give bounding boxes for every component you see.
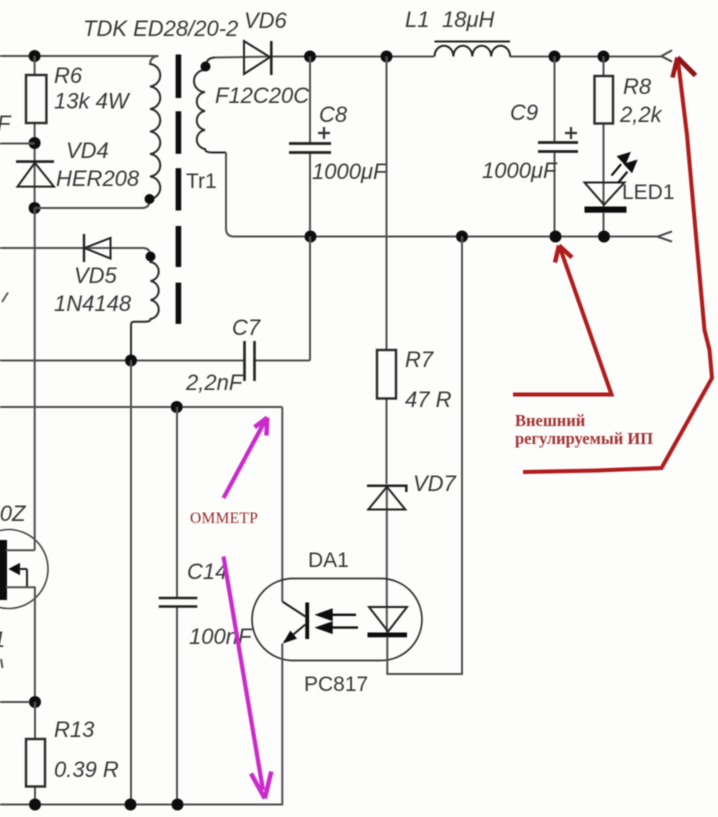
label TDK ED28/20-2 [83,16,238,41]
wire: snubber loop bottom to primary winding [35,199,150,208]
svg-text:1000μF: 1000μF [482,158,558,183]
diode VD6 F12C20C [244,41,271,75]
svg-text:R8: R8 [623,74,652,99]
annotation: magenta arrow up (ohmmeter) [224,418,268,498]
svg-text:1000μF: 1000μF [312,159,388,184]
optocoupler DA1 phototransistor [282,602,309,643]
label 47 R [405,387,452,412]
label C9 [510,100,538,125]
svg-text:R13: R13 [54,717,95,742]
transformer Tr1 primary winding [150,64,160,199]
node: secondary winding phase dot [201,62,211,72]
label 1N4148 [54,291,132,316]
wire: secondary top to VD6 [215,57,304,58]
svg-text:C9: C9 [510,100,538,125]
wire: top output rail [304,56,662,58]
wire: primary ground rail [0,804,282,806]
label 18uH [442,7,495,32]
label 2,2k [619,102,663,127]
svg-text:2,2k: 2,2k [619,102,663,127]
label 2,2nF [185,370,244,395]
node: R7 top junction [381,51,393,63]
svg-text:Внешний: Внешний [515,411,586,430]
label L1 [405,7,429,32]
wire: R13 top stub [0,701,35,703]
label R7 [405,347,434,372]
label 0.39 R [54,757,119,782]
label 1000uF (C9) [482,158,558,183]
transformer Tr1 auxiliary winding [131,256,159,361]
label C7 [232,315,261,340]
node: C9 top junction [549,51,561,63]
diode VD5 [84,234,111,262]
wire: R7 branch vertical [386,57,388,634]
label C14 [187,559,227,584]
label Tr1 [186,170,217,193]
node: C14 top junction [171,401,183,413]
svg-text:100nF: 100nF [189,624,253,649]
svg-text:47 R: 47 R [405,387,452,412]
label HER208 [56,166,140,191]
label F (clipped text at left edge) [0,111,12,136]
svg-text:F12C20C: F12C20C [215,83,309,108]
wire: left snubber vertical (R6/VD4 leads) [34,56,36,208]
transformer Tr1 secondary winding [194,58,226,153]
capacitor C7 [245,341,255,381]
wire: ohmmeter loop wire [0,407,282,602]
label R6 [54,63,83,88]
svg-text:TDK ED28/20-2: TDK ED28/20-2 [83,16,238,41]
node: C8 bottom junction [305,231,317,243]
inductor L1 [435,42,511,57]
svg-text:50Z: 50Z [0,501,27,526]
wire: C7 feedback wire [0,237,310,361]
annotation: magenta arrow down (ohmmeter) [224,557,272,799]
transformer Tr1 core (dashed) [176,55,182,324]
capacitor C8 [289,57,331,237]
label R13 [54,717,95,742]
resistor R6 [26,75,46,123]
wire: opto LED cathode return [387,237,462,675]
optocoupler DA1 LED [368,607,408,637]
label LED1 [622,181,675,204]
wire: VD5 feedback wire [0,248,151,256]
svg-text:VD4: VD4 [66,138,109,163]
label: MOSFET part number (clipped) 50Z [0,501,27,526]
resistor R13 [26,702,45,805]
label F12C20C [215,83,309,108]
node: R8 top junction [598,51,610,63]
node: C14 bottom junction [172,799,184,811]
svg-text:1: 1 [0,627,5,652]
zener diode VD7 [367,486,406,510]
annotation: label ОММЕТР [190,510,258,527]
label 1000uF (C8) [312,159,388,184]
node: top rail / R6 junction [29,50,41,62]
fragment: clipped mark [1,659,3,668]
label DA1 [308,549,349,572]
label VD6 [244,8,288,33]
LED1 emission arrows [612,154,636,184]
fragment: clipped text 1 [0,627,5,652]
svg-text:DA1: DA1 [308,549,349,572]
MOSFET Q1 drain lead [6,208,35,550]
svg-text:2,2nF: 2,2nF [185,370,244,395]
svg-text:0.39 R: 0.39 R [54,757,119,782]
capacitor C9 [538,57,578,237]
terminal: output - [658,231,673,241]
node: C8 top junction [304,51,316,63]
wire: aux-winding left vertical [130,361,132,805]
svg-text:R6: R6 [54,63,83,88]
terminal: output + [661,50,672,61]
label 100nF [189,624,253,649]
node: R6/VD4 junction [29,137,41,149]
label C8 [319,102,348,127]
MOSFET Q1 source lead [6,587,36,702]
diode VD4 [16,162,54,187]
node: aux/C7 junction [125,355,137,367]
wire: bottom output rail [226,153,658,237]
resistor R7 [377,350,396,399]
svg-text:F: F [0,111,12,136]
svg-text:HER208: HER208 [56,166,140,191]
LED LED1 [585,183,627,237]
wire: opto emitter to ground rail [281,644,283,806]
node: LED1 bottom junction [598,231,610,243]
MOSFET Q1 channel bar [0,540,7,600]
svg-text:13k 4W: 13k 4W [54,89,131,114]
svg-text:1N4148: 1N4148 [54,291,132,316]
svg-text:VD5: VD5 [74,263,118,288]
label R8 [623,74,652,99]
node: C9 bottom junction [550,231,562,243]
annotation: red arrow to - rail (external PSU) [513,246,612,395]
svg-text:PC817: PC817 [304,673,368,696]
svg-text:C7: C7 [232,315,261,340]
resistor R8 [595,57,614,208]
label VD4 [66,138,109,163]
svg-text:18μH: 18μH [442,7,495,32]
capacitor C14 [159,407,198,805]
MOSFET Q1 body circle [0,530,48,609]
svg-text:LED1: LED1 [622,181,675,204]
annotation: label Внешний регулируемый ИП [515,411,653,448]
svg-text:C8: C8 [319,102,348,127]
wire: stub left from R6/VD4 junction [0,143,35,145]
node: R13 bottom junction [29,799,41,811]
svg-text:R7: R7 [405,347,434,372]
svg-text:VD7: VD7 [413,471,457,496]
svg-text:Tr1: Tr1 [186,170,217,193]
node: auxiliary winding phase dot [146,252,156,262]
svg-text:L1: L1 [405,7,429,32]
svg-text:C14: C14 [187,559,227,584]
node: aux line bottom junction [125,799,137,811]
node: source/R13 junction [29,696,41,708]
fragment: clipped text at left edge (y 297) [2,293,8,303]
label 13k 4W [54,89,131,114]
svg-text:VD6: VD6 [244,8,288,33]
svg-text:ОММЕТР: ОММЕТР [190,510,258,527]
svg-text:регулируемый ИП: регулируемый ИП [515,429,653,448]
node: VD4 bottom junction [29,202,41,214]
wire: primary top rail [0,56,159,65]
node: opto return junction [456,231,468,243]
annotation: red arrow to + terminal (external PSU, right edge) [523,58,712,473]
node: primary winding phase dot [145,194,155,204]
optocoupler DA1 emission arrows [318,610,358,632]
label VD5 [74,263,118,288]
optocoupler DA1 body [252,579,422,661]
MOSFET Q1 body arrow [10,564,28,587]
label PC817 [304,673,368,696]
label VD7 [413,471,457,496]
